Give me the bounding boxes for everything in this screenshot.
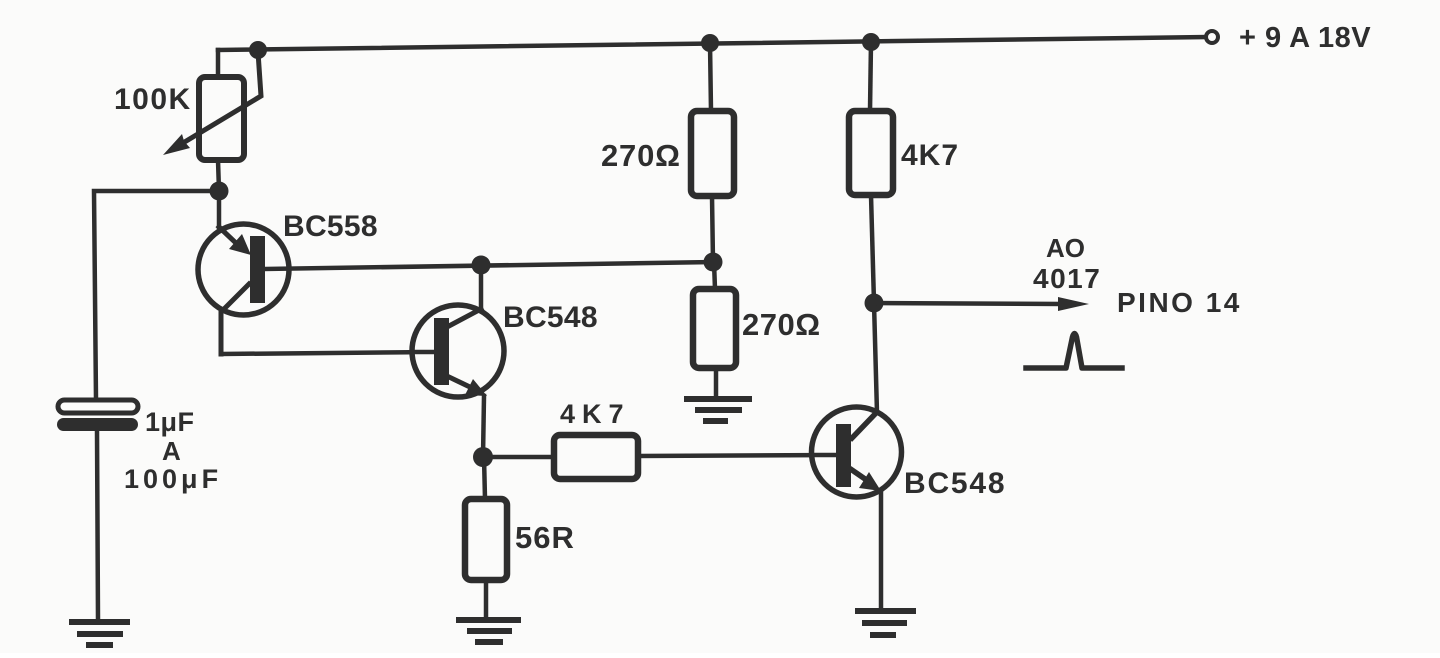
wire Q2 base entry (413, 350, 434, 355)
svg-text:AO: AO (1046, 233, 1085, 263)
transistor Q1 collector diagonal (221, 284, 249, 354)
ground G4 (687, 399, 749, 421)
svg-text:PINO 14: PINO 14 (1117, 287, 1242, 318)
resistor R3 270 bottom body (693, 289, 736, 368)
transistor Q2 collector diagonal (449, 309, 481, 326)
wire Q1 collector to Q2 base (221, 352, 436, 354)
svg-text:1μF: 1μF (145, 407, 195, 437)
wire 100K bottom lead (218, 160, 219, 191)
svg-text:BC558: BC558 (283, 210, 378, 243)
wire 100K top lead (216, 50, 221, 77)
transistor Q1 BC558 circle (198, 224, 289, 315)
node rail-wiper junction dot (249, 41, 267, 59)
node A junction dot (pot/emitter/cap) (210, 182, 229, 201)
resistor R4 4K7 body (horizontal) (554, 435, 638, 479)
transistor Q2 BC548 circle (412, 305, 504, 397)
capacitor C1 top plate (58, 400, 138, 413)
svg-text:270Ω: 270Ω (742, 307, 821, 342)
wire junction to R3 (714, 262, 715, 289)
transistor Q3 collector diagonal (852, 412, 877, 438)
wire output arrow to PINO 14 (874, 303, 1062, 304)
svg-text:4017: 4017 (1033, 263, 1101, 294)
wire 4K7 to Q3 base (638, 455, 836, 456)
transistor Q2 base bar (434, 318, 449, 385)
wire junction to capacitor (94, 191, 219, 400)
wire output node to Q3 collector (874, 303, 877, 413)
svg-text:BC548: BC548 (503, 301, 598, 334)
wire R6 down to output node (871, 195, 874, 303)
node 270 junction dot (704, 253, 723, 272)
svg-text:100K: 100K (114, 83, 192, 116)
wire rail to 270 top (710, 43, 711, 111)
transistor Q1 base bar (250, 236, 265, 303)
ground G1 (72, 622, 127, 645)
wire capacitor to ground (97, 431, 98, 620)
arrowhead output (1058, 297, 1089, 311)
transistor Q2 emitter arrow (out, NPN) (449, 377, 470, 387)
svg-text:+ 9 A 18V: + 9 A 18V (1239, 22, 1371, 54)
potentiometer R1 wiper arrow (178, 52, 261, 146)
wire Q2 collector up to node (479, 265, 484, 309)
potentiometer R1 body (199, 77, 244, 160)
svg-text:270Ω: 270Ω (601, 138, 681, 173)
wire to 56R (484, 457, 485, 499)
transistor Q3 BC548 circle (812, 407, 902, 497)
svg-text:100μF: 100μF (124, 464, 222, 494)
wire Q2 emitter down (483, 396, 484, 457)
wire 56R to ground (484, 580, 489, 616)
ground G3 (858, 611, 913, 635)
ground G2 (459, 620, 518, 642)
wire rail to 4K7 vertical (870, 42, 871, 111)
node emitter junction dot (473, 447, 493, 467)
svg-text:BC548: BC548 (904, 467, 1006, 500)
terminal +V open circle (1206, 31, 1218, 43)
wire Q1 emitter lead (217, 191, 222, 227)
node rail junction dot (270) (701, 34, 719, 52)
svg-text:56R: 56R (515, 520, 575, 555)
node Q2 collector junction dot (472, 256, 491, 275)
resistor R6 4K7 vertical body (849, 111, 893, 195)
svg-text:4K7: 4K7 (901, 139, 959, 172)
resistor R5 56R body (465, 499, 507, 580)
wire R3 to ground (714, 368, 719, 395)
transistor Q3 emitter arrow (852, 470, 868, 481)
svg-text:A: A (162, 436, 181, 466)
wire R2 bottom lead (712, 196, 713, 262)
transistor Q3 base bar (836, 424, 851, 487)
wire Q3 emitter to ground (879, 492, 884, 608)
node output junction dot (865, 294, 884, 313)
svg-text:4K7: 4K7 (560, 399, 631, 429)
pulse waveform symbol (1026, 334, 1122, 369)
wire emitter node to 4K7 (483, 455, 554, 460)
transistor Q1 emitter arrow (into base, PNP) (219, 227, 238, 245)
capacitor C1 bottom plate (filled) (57, 418, 138, 431)
resistor R2 270 top body (691, 111, 734, 196)
wire Q3 base entry (812, 453, 836, 458)
node rail junction dot (4K7) (862, 33, 880, 51)
wire top supply rail (218, 37, 1206, 50)
wire Q1 base to 270 junction (265, 262, 713, 269)
